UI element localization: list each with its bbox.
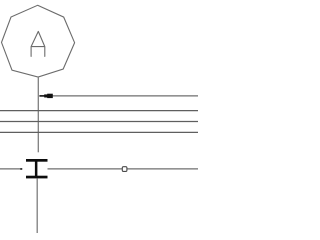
wire from balloon down [37,77,39,152]
capacitor C1 stem [35,160,38,177]
capacitor C1 bottom plate [26,176,48,179]
wire bus line 1 [0,110,198,112]
balloon A octagon [2,5,75,77]
wire bus line 3 [0,131,198,133]
capacitor C1 top plate [26,159,48,162]
wire right of capacitor [48,168,199,170]
wire end tick [20,168,22,170]
wire below capacitor [36,178,38,233]
wire bus line 2 [0,121,198,123]
wire arrow leader line [51,95,198,97]
arrowhead [39,95,45,97]
node marker on wire [122,167,127,172]
wire left of capacitor [0,168,22,170]
label A [31,31,45,56]
